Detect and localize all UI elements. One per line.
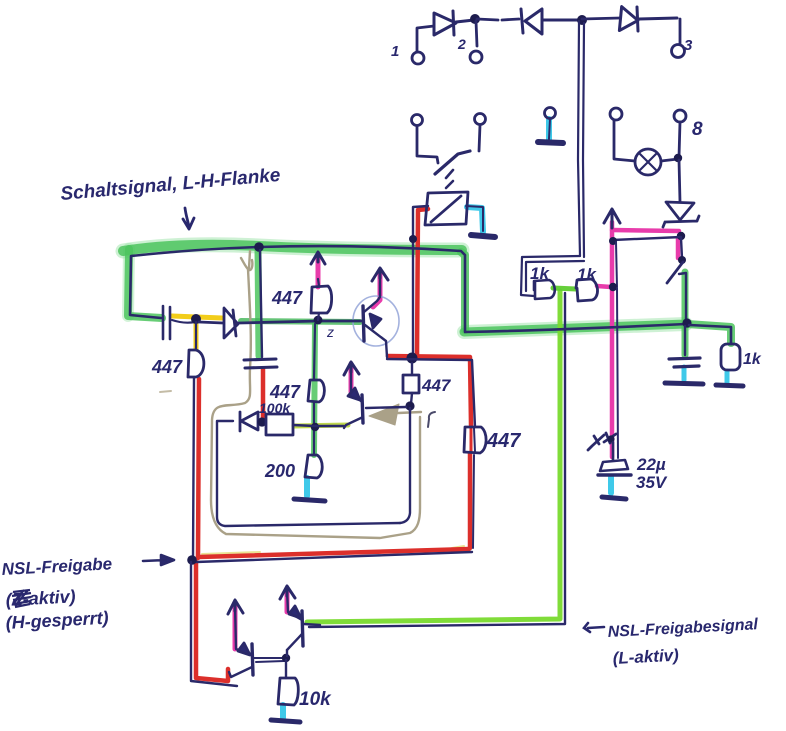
resistor R5 100k [266,414,293,435]
wire yellow highlight node down to R1 [194,321,199,349]
transistor Q1 emitter [365,325,387,357]
wire cyan 22u ground stem [608,477,614,493]
arrow head above Q3 [228,600,243,614]
transistor Q2 collector down [344,417,363,428]
transistor Q4 base diag up [287,590,302,620]
diode D1 top-left [434,11,474,35]
wire magenta zener to switch stub [676,238,681,258]
svg-text:447: 447 [486,430,521,452]
wire switch stub to node B [679,273,686,322]
svg-text:10k: 10k [299,689,332,710]
transistor Q4 emitter diag [287,634,302,650]
node zener out [677,232,685,240]
wire red relay to node C [417,209,428,356]
capacitor C1 plates [163,306,170,339]
svg-text:(L-aktiv): (L-aktiv) [612,646,679,668]
resistor R6 447 box [403,375,419,393]
svg-text:447: 447 [421,376,452,395]
wire left loop dark [130,257,161,318]
capacitor C2 stub dark [260,250,262,357]
wire cyan terminal ground stem [546,119,552,140]
diode D5 input [224,308,238,338]
wire R1 down dark [193,378,194,559]
diode D2 top-middle reversed [521,9,581,34]
svg-text:8: 8 [692,119,703,140]
ground 200 [294,499,325,501]
wire zener to switch node [681,238,682,258]
pencil small dash left [160,391,171,392]
arrow magenta above R2 [316,255,321,287]
wire green highlight vertical through R3 [314,322,315,455]
pencil annotation arrow tail [398,412,421,413]
node H below R6 [405,401,414,410]
terminal 3 [672,19,685,58]
wire bright green between 1k 1k resistors [553,288,576,289]
wire red left vertical lower to Q3 [196,562,228,681]
node NSL left [187,555,197,565]
wire yellow highlight C1 to node [172,316,222,318]
wire Q3 base to node J [254,658,285,662]
wire node F down through R3 [314,324,315,455]
node lamp [674,154,682,162]
relay contact terminal right [475,114,486,152]
svg-text:447: 447 [271,288,303,308]
relay contact terminal left [412,115,439,164]
node magenta riser [609,237,617,245]
node top-b [577,15,587,25]
svg-text:22µ: 22µ [636,455,666,474]
wire R2 tails [318,279,319,320]
node G crossing [311,423,319,431]
lamp terminal left [610,108,635,161]
wire top right [582,18,620,19]
transistor Q3 emitter up [235,604,251,654]
transistor Q3 base bar [252,644,253,675]
transistor Q4 base bar [302,611,303,646]
node top-a [470,14,480,24]
wire magenta 1k resistor out to node D [597,286,611,287]
wire cyan 10k ground stem [280,705,286,718]
lamp E1 [635,149,661,175]
svg-text:3: 3 [684,37,693,54]
wire green highlight node A down to C2 [258,249,259,356]
diode D4 zener [663,202,699,227]
wire dark under magenta horizontal [613,237,681,240]
node F [314,316,323,325]
svg-text:1k: 1k [530,264,550,283]
resistor R1 447 [188,350,204,377]
wire timing box bottom and left [217,421,400,526]
wire dark beside bright green NSL run [309,293,565,627]
wire Q4 collector to green run [304,624,320,625]
wire lamp to node [661,159,678,161]
node C [407,353,418,364]
wire red left vertical upper [198,379,199,558]
wire green halo main horizontal [464,324,686,332]
transistor Q2 base bar [362,395,363,423]
wire node J to 10k and Q4 [286,650,287,678]
wire cyan 200 ground stem [304,478,310,496]
arrow head above Q1 [372,268,388,281]
svg-text:1k: 1k [577,265,597,284]
wire lamp node down [679,160,680,202]
transistor Q1 base bar [363,306,364,341]
wire Q2 base to node H [366,407,406,408]
wire green halo top rail [123,245,462,251]
terminal 1 [412,26,434,64]
arrow head above Q2 [344,362,359,375]
lamp terminal right [674,110,686,157]
wire green highlight node B to 1k [687,324,731,343]
svg-text:200: 200 [264,461,295,481]
wire green highlight top rail (Schaltsignal) [123,245,462,251]
node relay crossing [409,235,417,243]
svg-text:1: 1 [391,43,399,60]
svg-text:447: 447 [151,357,183,377]
wire bottom rail dark [196,552,472,562]
svg-text:z: z [326,324,334,340]
transistor Q4 arrowhead [289,606,301,618]
transistor Q1 collector [364,272,380,312]
transistor Q2 emitter arrowhead [348,388,360,400]
wire cyan C3 ground stem [682,367,687,380]
diode D6 timing [240,412,258,431]
squiggle mark near R6 [428,412,435,427]
arrow head above Q4 [280,586,295,599]
node J [282,654,290,662]
svg-text:35V: 35V [636,473,668,492]
capacitor C2 plates [244,359,277,368]
arrow magenta above Q3 [233,603,238,649]
node I [257,417,266,426]
node E [191,314,201,324]
svg-text:1k: 1k [743,351,762,368]
node A [254,242,264,252]
wire node E to D5 [199,322,223,323]
arrow head magenta riser right [604,209,620,228]
resistor R7 447 [464,427,486,453]
ground 22u [602,497,626,499]
resistor R10 1k horizontal [534,280,555,299]
wire dark right vertical to bottom [473,428,475,548]
pencil annotation arrowhead at Q2 base [369,404,399,425]
ground relay [471,235,495,237]
transistor Q3 collector down [229,667,252,677]
wire node E down to R1 [195,322,197,350]
arrow magenta above Q4 [285,589,290,612]
wire D5 to node F and Q1 base [239,321,361,323]
switch S2 blade [667,262,683,283]
transistor Q2 emitter up [351,366,362,402]
node B [682,318,691,327]
resistor R2 447 [311,286,332,313]
resistor R11 1k horizontal [576,279,598,301]
arrow magenta above Q1 [373,271,380,307]
wire green highlight relay corner down [461,252,465,330]
wire 100k to Q2 collector [293,425,344,426]
wire green halo left loop [128,249,129,316]
wire green rail dark top [131,246,465,331]
wire green highlight main horizontal to node B [464,324,686,332]
wire C1 to node E [172,320,195,323]
wire left vertical lower dark [191,562,237,686]
resistor R3 447 [308,380,324,402]
wire relay left dark [413,206,428,357]
diode D3 top-right [619,7,677,32]
wire dark beside magenta down to 22u [617,288,618,458]
wire red R7 down [468,453,473,548]
relay contact blade [435,151,470,174]
wire green highlight D1 to Q1 base [241,321,360,322]
wire cyan 1k ground stem [725,371,730,383]
pencil annotation Y mark [241,251,252,270]
arrow before NSL-Freigabesignal [584,623,604,632]
arrow magenta above Q2 [349,364,354,392]
wire node C right dark [387,359,475,427]
transistor Q3 emitter arrowhead [238,643,250,655]
relay coil K1 [425,192,468,225]
wire yellow-green highlight 100k row [294,425,348,426]
wire bright green NSL-Freigabesignal run [307,291,560,622]
faint circle around Q1 [353,296,399,346]
pencil annotation loop around timing box [211,269,420,538]
arrow head above R2 [311,252,325,264]
wire node C to R6 [411,363,412,404]
wire red C2 to D2 node [261,369,266,421]
wire red bottom rail [199,549,469,557]
svg-text:2: 2 [457,36,466,52]
capacitor C4 22u top plate [600,460,628,471]
capacitor C3 plates [669,358,700,367]
node D junction [609,283,617,291]
relay linkage dashes [446,170,453,188]
wire magenta horizontal to zener [612,230,679,231]
wire top mid [477,19,519,20]
wire green highlight left loop [128,249,162,318]
terminal 2 [470,21,482,63]
svg-text:447: 447 [269,382,301,402]
arrow NSL pointing right [143,555,174,565]
wire red through R7 [470,428,473,452]
capacitor C4 22u plus marks [588,433,616,450]
wire red node C to R7 [388,356,471,425]
ground 10k [271,720,300,722]
capacitor C4 22u bottom plate [598,473,631,476]
transistor Q1 emitter arrowhead [370,314,381,328]
ground 1k [716,385,743,386]
wire faint yellow bottom rail flecks [202,546,464,554]
scribble over Z [12,590,31,607]
svg-text:100k: 100k [259,400,291,416]
wire timing box right side [400,408,410,523]
wire node B to 1k [689,325,731,344]
wire main horizontal dark [465,324,686,332]
ground C3 [665,383,703,384]
resistor R9 10k [278,678,298,705]
wire double vertical drop [578,21,584,257]
wire relay right dark to ground [466,206,483,231]
terminal mid ground [545,108,556,140]
wire dark beside magenta vertical [616,242,617,287]
wire green highlight switch stub to C3 [682,272,689,355]
wire double drop corner to 1k1k box [521,256,584,296]
capacitor C3 stub [684,326,686,355]
wire magenta long vertical to 22u cap [610,222,615,457]
ground terminal mid [538,142,563,143]
resistor R8 1k [721,344,740,370]
resistor R4 200 [305,455,322,478]
arrow under heading [183,208,194,229]
wire cyan relay to ground [467,207,483,232]
node switch top [678,256,686,264]
